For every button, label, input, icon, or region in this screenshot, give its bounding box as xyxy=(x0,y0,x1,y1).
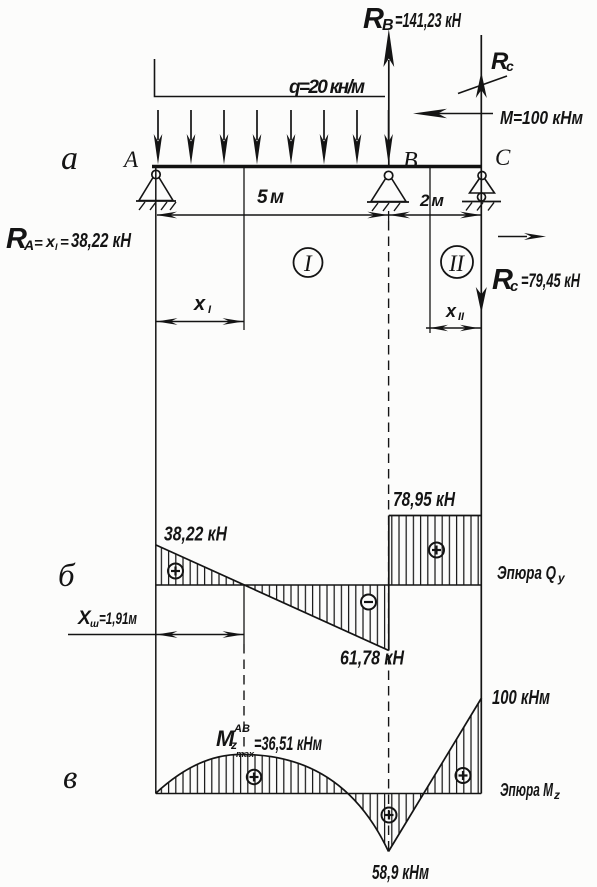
svg-text:x: x xyxy=(193,293,206,315)
svg-text:а: а xyxy=(61,140,78,177)
svg-text:A: A xyxy=(23,237,34,253)
svg-text:y: y xyxy=(557,571,566,585)
svg-text:в: в xyxy=(63,760,77,796)
svg-text:100 кНм: 100 кНм xyxy=(492,687,550,709)
svg-text:38,22 кН: 38,22 кН xyxy=(71,230,131,252)
svg-text:=79,45 кН: =79,45 кН xyxy=(521,271,581,292)
svg-text:58,9 кНм: 58,9 кНм xyxy=(372,862,429,884)
svg-text:x: x xyxy=(445,301,457,321)
svg-text:C: C xyxy=(495,145,511,170)
svg-text:B: B xyxy=(403,148,418,174)
svg-text:=1,91м: =1,91м xyxy=(99,609,137,628)
svg-text:M=100 кНм: M=100 кНм xyxy=(500,108,583,128)
svg-text:c: c xyxy=(506,58,514,74)
svg-text:I: I xyxy=(303,251,313,276)
svg-text:б: б xyxy=(58,558,76,594)
svg-text:II: II xyxy=(458,311,465,323)
svg-text:=: = xyxy=(60,234,69,251)
svg-text:AB: AB xyxy=(233,723,250,735)
svg-text:38,22 кН: 38,22 кН xyxy=(164,524,227,546)
svg-text:z: z xyxy=(553,788,560,802)
svg-text:c: c xyxy=(510,278,519,295)
svg-text:max: max xyxy=(236,749,255,759)
svg-text:2 м: 2 м xyxy=(419,191,444,210)
svg-text:B: B xyxy=(382,17,394,34)
svg-text:Эпюра Q: Эпюра Q xyxy=(497,563,556,583)
svg-text:q=20 кн/м: q=20 кн/м xyxy=(289,77,365,98)
svg-text:=36,51 кНм: =36,51 кНм xyxy=(254,734,322,755)
svg-text:ш: ш xyxy=(90,619,99,630)
svg-text:II: II xyxy=(448,251,465,276)
svg-text:=: = xyxy=(34,235,43,252)
svg-text:A: A xyxy=(122,147,139,172)
svg-text:5 м: 5 м xyxy=(257,187,284,208)
svg-text:R: R xyxy=(363,3,384,35)
svg-text:Эпюра M: Эпюра M xyxy=(500,780,554,800)
svg-text:=141,23 кН: =141,23 кН xyxy=(395,10,461,32)
svg-text:61,78 кН: 61,78 кН xyxy=(340,648,404,670)
svg-text:78,95 кН: 78,95 кН xyxy=(393,489,455,511)
